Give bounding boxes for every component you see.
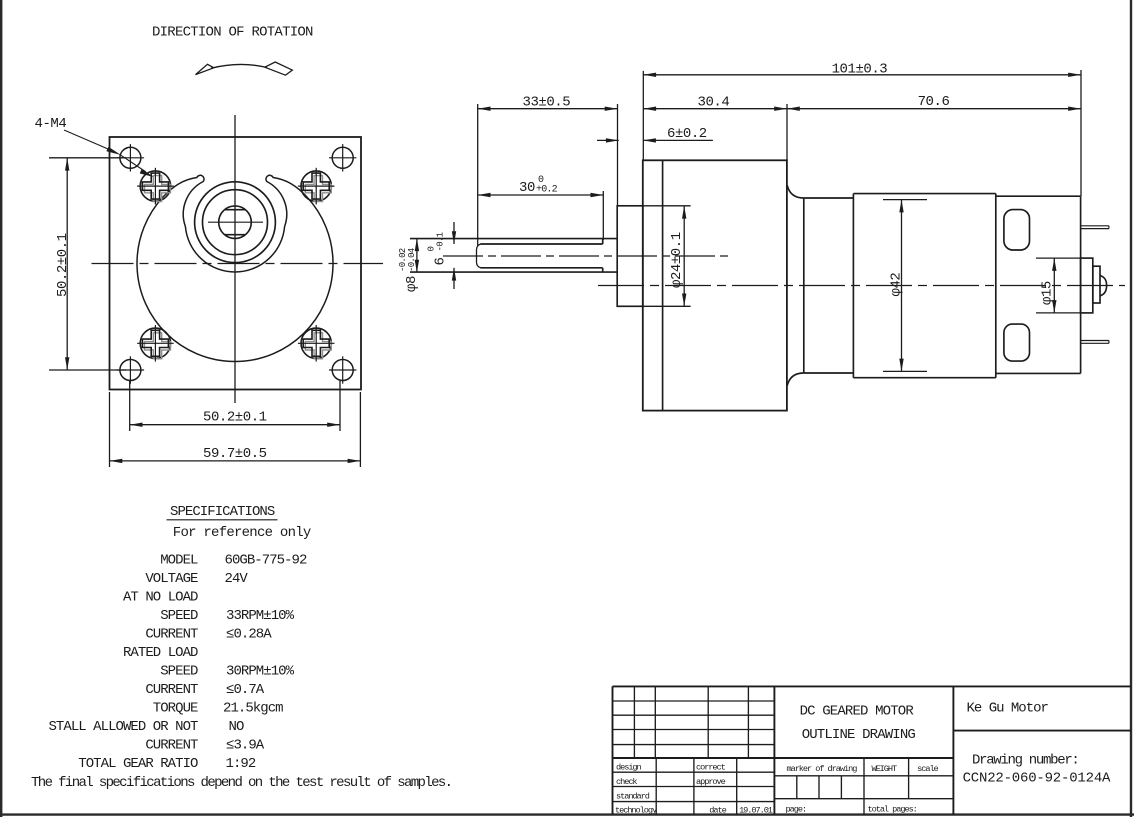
svg-text:φ8: φ8 (404, 276, 420, 292)
svg-text:technology: technology (615, 806, 657, 816)
6 flat outside arrows (452, 231, 456, 244)
svg-text:check: check (616, 777, 637, 787)
shaft cross centerlines (208, 221, 263, 223)
svg-text:standard: standard (616, 792, 650, 802)
svg-text:≤3.9A: ≤3.9A (226, 738, 265, 754)
svg-text:21.5kgcm: 21.5kgcm (223, 701, 283, 717)
right section divider (953, 730, 1131, 732)
svg-text:DIRECTION OF ROTATION: DIRECTION OF ROTATION (152, 25, 313, 41)
svg-text:CURRENT: CURRENT (145, 682, 198, 698)
dim phi8 (416, 238, 418, 272)
arrowheads 50.2 bottom (130, 423, 143, 427)
svg-text:approve: approve (696, 777, 726, 787)
svg-text:SPEED: SPEED (160, 664, 198, 680)
svg-text:VOLTAGE: VOLTAGE (145, 571, 198, 587)
vertical centerline (234, 115, 236, 403)
svg-text:Drawing number:: Drawing number: (972, 753, 1079, 769)
svg-text:24V: 24V (225, 571, 249, 587)
hole bottom-right (329, 356, 356, 383)
33 (478, 107, 491, 111)
motor front section (803, 198, 805, 373)
101 (643, 73, 656, 77)
svg-text:MODEL: MODEL (160, 553, 198, 569)
output shaft phi8 silhouette lines (410, 238, 617, 240)
rear shaft tip bump (1100, 276, 1107, 296)
flange square (110, 137, 362, 390)
svg-text:NO: NO (229, 719, 244, 735)
dim row 33 / 30.4 / 70.6 (477, 104, 479, 246)
hole top-right (329, 144, 356, 171)
rear bearing boss phi15 (1081, 258, 1093, 313)
svg-text:50.2±0.1: 50.2±0.1 (203, 410, 267, 426)
vent top (1004, 210, 1030, 250)
svg-text:19.07.01: 19.07.01 (739, 806, 773, 816)
svg-text:STALL ALLOWED OR NOT: STALL ALLOWED OR NOT (48, 719, 198, 735)
svg-text:CCN22-060-92-0124A: CCN22-060-92-0124A (963, 771, 1111, 787)
phi24 (682, 206, 686, 219)
svg-text:OUTLINE DRAWING: OUTLINE DRAWING (802, 727, 916, 743)
dim phi42 extension + line (883, 199, 927, 201)
gearbox case outline with crescent cutout and horns (137, 175, 333, 361)
outer boundary (613, 685, 1132, 687)
svg-text:6: 6 (433, 258, 449, 266)
svg-text:≤0.7A: ≤0.7A (226, 682, 265, 698)
title block texts (615, 701, 1111, 816)
svg-text:φ42: φ42 (889, 273, 905, 297)
arrowheads 59.7 bottom (110, 459, 123, 463)
spec labels column (48, 553, 198, 773)
horizontal dashed centerline (92, 263, 384, 265)
revision grid horizontals (613, 700, 775, 702)
hole top-left (117, 144, 144, 171)
dim 6 flat (453, 222, 455, 244)
svg-text:For reference only: For reference only (173, 525, 311, 541)
6+-0.2 outside arrows (606, 138, 619, 142)
70.6 (787, 107, 800, 111)
screws (phillips) (137, 168, 334, 362)
svg-text:total pages:: total pages: (868, 805, 917, 815)
svg-text:60GB-775-92: 60GB-775-92 (225, 553, 308, 569)
corner mounting holes 4-M4 (117, 144, 357, 384)
svg-text:101±0.3: 101±0.3 (832, 62, 888, 78)
phi15 (1052, 258, 1056, 271)
svg-text:marker of drawing: marker of drawing (786, 764, 857, 774)
svg-text:date: date (709, 806, 726, 816)
DIRECTION OF ROTATION (152, 25, 313, 76)
signature rows (613, 771, 775, 773)
gearbox body (643, 160, 787, 410)
dim text 6 0/-0.1 rotated (427, 232, 449, 265)
terminal top (1081, 226, 1109, 229)
svg-text:CURRENT: CURRENT (145, 738, 198, 754)
front view centerlines (92, 115, 384, 403)
neck fillet bottom (787, 373, 804, 386)
30 (478, 193, 491, 197)
dim 59.7 bottom (109, 392, 111, 467)
dim phi15 extension + line (1036, 257, 1081, 259)
30.4 (643, 107, 656, 111)
revision grid verticals (633, 686, 635, 758)
output shaft circle with flats (219, 206, 252, 239)
svg-text:33±0.5: 33±0.5 (523, 95, 571, 111)
svg-text:DC GEARED MOTOR: DC GEARED MOTOR (800, 704, 915, 720)
svg-text:RATED LOAD: RATED LOAD (123, 645, 198, 661)
svg-text:6±0.2: 6±0.2 (667, 126, 707, 142)
svg-text:30.4: 30.4 (698, 95, 730, 111)
svg-text:30RPM±10%: 30RPM±10% (226, 664, 295, 680)
screw top-right (298, 168, 335, 205)
svg-text:1:92: 1:92 (226, 756, 256, 772)
flat end steps (602, 239, 604, 244)
middle lower rows (774, 775, 953, 777)
screw bottom-right (298, 325, 335, 362)
svg-text:The final specifications depen: The final specifications depend on the t… (31, 775, 451, 791)
svg-text:CURRENT: CURRENT (145, 627, 198, 643)
side view dimension arrowheads (415, 73, 1081, 372)
svg-text:φ15: φ15 (1040, 281, 1056, 305)
spec title underline (167, 519, 278, 521)
gearbox inner step line (662, 160, 664, 410)
svg-text:page:: page: (786, 805, 807, 815)
svg-text:TORQUE: TORQUE (153, 701, 198, 717)
svg-text:-0.1: -0.1 (436, 232, 446, 251)
svg-text:≤0.28A: ≤0.28A (226, 627, 272, 643)
dim 6+-0.2 (597, 139, 619, 141)
screw bottom-left (137, 325, 174, 362)
motor endbell (996, 195, 1081, 197)
svg-text:SPECIFICATIONS: SPECIFICATIONS (170, 504, 275, 520)
svg-text:-0.04: -0.04 (407, 248, 417, 272)
svg-text:scale: scale (917, 764, 938, 774)
shaft axis centerline (443, 255, 730, 257)
front view dimensions (49, 158, 360, 467)
svg-text:+0.2: +0.2 (536, 185, 558, 196)
dim text phi8 -0.02/-0.04 rotated (398, 248, 420, 292)
hole bottom-left (117, 356, 144, 383)
rear boss step (1093, 266, 1100, 303)
dim 101 extension lines and dim line (642, 71, 644, 160)
motor axis centerline (598, 285, 1125, 287)
dim 50.2 vertical extension lines and dim line (49, 157, 126, 159)
svg-text:70.6: 70.6 (918, 94, 950, 110)
dim 30 +0.2/0 (478, 194, 604, 196)
svg-text:33RPM±10%: 33RPM±10% (226, 608, 295, 624)
phi42 (899, 200, 903, 213)
dim 50.2 bottom (129, 381, 131, 431)
svg-text:WEIGHT: WEIGHT (871, 764, 897, 774)
gearbox boss plate phi24 (617, 206, 643, 306)
title block small cell labels (615, 763, 939, 816)
svg-text:design: design (616, 763, 642, 773)
side view centerlines (443, 256, 1125, 286)
svg-text:4-M4: 4-M4 (35, 116, 67, 132)
arrowheads 50.2 vertical (65, 158, 69, 171)
boss circle r32.5 (203, 190, 268, 255)
svg-text:Ke Gu Motor: Ke Gu Motor (967, 701, 1049, 717)
dim phi24 extension + line (643, 205, 691, 207)
shaft tip chamfer (477, 244, 481, 268)
side view dimension texts (398, 62, 1056, 306)
motor main can (852, 194, 854, 378)
svg-text:TOTAL GEAR RATIO: TOTAL GEAR RATIO (78, 756, 198, 772)
svg-text:correct: correct (696, 763, 726, 773)
svg-text:30: 30 (519, 180, 535, 196)
shaft flat edge lines (6mm) (481, 243, 603, 245)
4-M4 label and leader (35, 116, 153, 177)
svg-text:SPEED: SPEED (160, 608, 198, 624)
neck fillet top (787, 185, 804, 198)
svg-text:50.2±0.1: 50.2±0.1 (55, 233, 71, 297)
boss circle r40.4 (195, 182, 276, 263)
svg-text:59.7±0.5: 59.7±0.5 (203, 446, 267, 462)
svg-text:AT NO LOAD: AT NO LOAD (123, 590, 198, 606)
vent bottom (1004, 324, 1030, 361)
phi8 (415, 238, 419, 251)
side view dimensions (417, 70, 1081, 371)
screw top-left (137, 168, 174, 205)
terminal bottom (1081, 341, 1109, 344)
svg-text:φ24±0.1: φ24±0.1 (669, 232, 685, 288)
